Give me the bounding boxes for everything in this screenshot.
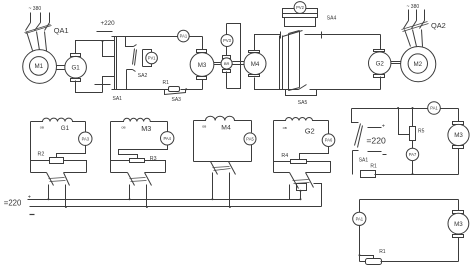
generator G1 armature circle	[65, 56, 87, 78]
motor M1 (induction motor, outer stator circle)	[23, 50, 57, 84]
svg-text:SA3: SA3	[172, 97, 182, 103]
motor M3 brush top	[197, 50, 207, 53]
svg-text:ов: ов	[121, 125, 125, 129]
junction minus bus M3 pole	[146, 206, 148, 208]
wire R5 branch from top wire	[412, 109, 414, 127]
wire diagram b left edge upper	[352, 109, 359, 123]
wire PV1 branch vertical	[143, 50, 152, 67]
svg-text:R1: R1	[163, 80, 170, 86]
wire top main DC wire to PA1 and M3	[112, 36, 203, 38]
junction plus bus G1 pole	[47, 198, 49, 200]
wire BR bottom to loop bottom	[226, 72, 228, 89]
switch SA4 right post	[321, 32, 323, 39]
junction plus bus M3 pole	[129, 198, 131, 200]
wire M3 bottom to bottom wire (diagram c)	[458, 238, 460, 262]
wire M4 minus brush down to SA5 wire	[255, 78, 299, 90]
svg-text:G1: G1	[71, 64, 80, 71]
ammeter PA5	[244, 133, 256, 145]
wire G2 minus brush down to SA5 wire	[380, 77, 382, 90]
wire PV2 across load resistor	[283, 9, 318, 14]
field winding OB G1 (inductor)	[31, 118, 86, 121]
wire box G1 right edge to PA3	[85, 122, 87, 133]
node supply minus bar (diagram b)	[368, 151, 382, 153]
svg-text:PV1: PV1	[148, 56, 156, 61]
wire R3 right terminal down	[145, 161, 166, 173]
junction R1 tap (diagram c)	[359, 254, 361, 256]
ammeter PA7	[406, 148, 418, 160]
switch QA2 linkage bar	[402, 22, 429, 32]
junction R1 output	[185, 88, 187, 90]
svg-text:G2: G2	[305, 126, 315, 135]
wire R5 slider tap branch	[399, 109, 410, 135]
ammeter PA1 (diagram b)	[428, 102, 441, 115]
svg-text:SA1: SA1	[113, 96, 123, 102]
wire bottom main DC wire to R1	[112, 89, 169, 91]
switch SA2 upper contact tick	[134, 45, 137, 47]
wire top wire down to M3 brush (diagram b)	[458, 109, 460, 122]
motor M3 armature circle (diagram c)	[448, 213, 469, 234]
motor M2 (induction motor, outer stator circle)	[401, 47, 436, 82]
motor M3 brush bottom (diagram c)	[453, 235, 464, 238]
switch SA4 blade	[283, 31, 303, 37]
junction plus bus M4 pole	[211, 198, 213, 200]
wire pole to plus bus	[129, 185, 131, 200]
wire SA2 lower contact down to bottom wire	[126, 70, 128, 90]
wire SA5 lower detour loop	[286, 90, 317, 96]
rheostat R1 body (diagram c)	[366, 259, 382, 265]
switch QA1 blades	[26, 23, 50, 31]
motor M3 brush top (diagram b)	[453, 122, 464, 125]
shaft coupling BR-M4	[233, 62, 245, 65]
svg-text:PA4: PA4	[163, 136, 171, 141]
wire PA4 to R3 slider tap	[119, 145, 168, 159]
svg-text:M3: M3	[454, 221, 463, 228]
switch box G1 linkage	[49, 178, 66, 182]
junction PA7 branch bottom	[412, 173, 414, 175]
svg-text:SA5: SA5	[298, 100, 308, 106]
voltmeter PV3 (tachogenerator voltmeter)	[221, 35, 233, 47]
svg-text:SA4: SA4	[327, 15, 337, 21]
svg-text:PV2: PV2	[296, 5, 304, 10]
svg-text:PA1: PA1	[180, 34, 188, 39]
shaft coupling G2-M2	[391, 62, 401, 64]
wire diagram b left edge lower	[353, 151, 359, 175]
wire left edge to R3 left terminal	[111, 160, 130, 162]
voltmeter PV2	[294, 2, 306, 14]
switch box M3 blades	[128, 173, 152, 186]
wire top wire down to G2 plus brush	[380, 35, 382, 50]
wire pole to plus bus	[212, 173, 214, 200]
svg-text:PA6: PA6	[325, 138, 333, 143]
svg-text:G2: G2	[376, 60, 385, 67]
wire box M4 left edge	[193, 121, 195, 162]
wire three-phase supply leads to QA1	[31, 13, 50, 23]
wire PA6 to R4 slider tap	[300, 147, 329, 160]
svg-text:ов: ов	[202, 124, 206, 128]
wire resistor loop down to SA4 contacts	[285, 18, 316, 27]
switch SA4 left post	[280, 32, 282, 39]
wire pole to minus bus	[65, 185, 67, 207]
wire branch from G1 plus junction down to bus	[103, 41, 115, 57]
svg-text:M4: M4	[221, 125, 231, 132]
wire QA2 to M2 stator leads	[405, 30, 423, 47]
rheostat R2 body	[50, 158, 64, 164]
switch SA2 lower contact	[127, 70, 136, 72]
generator G2 armature circle	[369, 52, 391, 74]
wire right pole to minus bus	[314, 184, 322, 207]
svg-text:BR: BR	[224, 61, 230, 66]
wire PA3 to R2 slider tap	[57, 146, 86, 158]
svg-text:M3: M3	[454, 132, 463, 139]
wire minus bus	[30, 206, 322, 208]
wire M3 minus brush down to bottom wire	[202, 80, 204, 90]
shaft coupling M1-G1	[57, 66, 65, 70]
wire R1 to M3 minus brush	[181, 89, 203, 91]
svg-text:R1: R1	[379, 249, 386, 255]
wire PV3-BR measuring loop	[227, 24, 241, 89]
wire box M3 right edge to PA4	[167, 122, 169, 132]
svg-text:SA1: SA1	[359, 158, 369, 164]
svg-text:PA3: PA3	[82, 136, 90, 141]
motor M3 brush bottom	[197, 77, 207, 80]
svg-text:PA7: PA7	[409, 152, 417, 157]
generator G2 brush top	[374, 50, 385, 52]
ammeter PA1 (main circuit)	[178, 30, 190, 42]
junction minus bus G1 pole	[65, 206, 67, 208]
switch QA1 linkage bar	[25, 25, 52, 34]
wire PA1 down to bottom wire (diagram c)	[359, 226, 361, 262]
field winding OB G2 (inductor)	[274, 117, 329, 120]
wire G1 minus terminal down and right	[76, 81, 103, 93]
wire M3 bottom to bottom wire (diagram b)	[458, 149, 460, 175]
wire three-phase supply leads to QA2	[409, 10, 425, 21]
svg-text:QA1: QA1	[54, 26, 69, 35]
svg-text:~ 380: ~ 380	[29, 6, 42, 12]
wire left pole stub to plus bus	[289, 185, 291, 200]
ammeter PA6	[322, 134, 335, 147]
wire M4 plus brush up to SA4 wire	[255, 35, 281, 51]
svg-text:R2: R2	[38, 152, 45, 158]
motor M4 brush top	[249, 51, 260, 53]
generator G2 brush bottom	[374, 75, 385, 78]
generator G1 brush top	[71, 54, 81, 57]
junction plus bus end	[300, 198, 302, 200]
switch SA2 blades	[133, 49, 137, 66]
switch SA1 pole wires (double vertical)	[115, 37, 117, 90]
wire SA5 to G2 minus	[310, 89, 381, 91]
switch box M4 linkage	[213, 167, 231, 171]
switch SA5 blade	[299, 85, 307, 90]
resistor R1 body (diagram b)	[361, 171, 376, 178]
wire top wire down to M3 brush (diagram c)	[458, 200, 460, 211]
motor M3 brush bottom (diagram b)	[453, 146, 464, 149]
wire pole to plus bus	[48, 185, 50, 200]
motor M4 armature circle	[244, 53, 266, 75]
field winding OB M3 (inductor)	[111, 118, 168, 121]
svg-text:R4: R4	[281, 153, 288, 159]
svg-text:M1: M1	[34, 63, 43, 70]
junction contact block top	[300, 190, 302, 192]
svg-text:M3: M3	[198, 62, 207, 69]
svg-text:=220: =220	[4, 198, 22, 207]
tachogenerator BR brush bottom	[223, 70, 231, 73]
wire box M4 bottom edge	[194, 161, 252, 163]
wire pole to minus bus	[146, 185, 148, 207]
svg-text:G1: G1	[61, 125, 70, 132]
node supply plus bar (diagram b)	[368, 127, 382, 129]
ammeter PA3	[79, 132, 92, 145]
junction on G1 plus wire	[102, 40, 104, 42]
svg-text:=220: =220	[366, 135, 386, 145]
wire switch feed line box G2	[274, 172, 331, 174]
wire PV3 to loop top and to BR	[226, 24, 228, 56]
motor M2 rotor circle and label	[408, 54, 427, 73]
node minus sign (diagram b)	[383, 154, 387, 156]
svg-text:PV3: PV3	[223, 38, 231, 43]
wire branch lower to bus and G1 minus	[103, 77, 115, 93]
wire switch feed line box G1	[31, 172, 87, 174]
svg-text:PA1: PA1	[356, 216, 364, 221]
junction tap branch top	[397, 107, 399, 109]
rheostat R3 body	[130, 159, 145, 163]
wire box G2 left edge	[273, 121, 275, 173]
wire left edge to R2 left terminal	[31, 160, 50, 162]
svg-text:ов: ов	[40, 125, 44, 129]
motor M1 rotor circle and label	[30, 57, 49, 76]
switch SA3 shorting blade across R1	[165, 90, 186, 95]
ammeter PA4	[161, 132, 174, 145]
wire top wire down to M3 plus brush	[202, 37, 204, 50]
svg-text:~ 380: ~ 380	[407, 4, 420, 10]
node minus sign of DC bus	[30, 214, 35, 216]
resistor load (across SA4) body	[283, 14, 318, 18]
svg-text:+: +	[382, 124, 385, 130]
wire box G1 left edge	[30, 122, 32, 173]
wire R2 right terminal down	[64, 161, 87, 173]
wire box M3 left edge	[110, 122, 112, 173]
switch box G1 blades	[47, 173, 70, 186]
wire R1 slider tap (diagram c)	[360, 256, 374, 259]
rheostat R4 body	[291, 160, 307, 164]
svg-text:M4: M4	[251, 61, 260, 68]
wire box M4 right edge	[251, 121, 253, 162]
wire R5 to PA7	[412, 141, 414, 149]
svg-text:+220: +220	[101, 20, 116, 27]
svg-text:PA1: PA1	[430, 106, 438, 111]
junction R5 branch top	[412, 107, 414, 109]
wire left edge to R4 left terminal	[274, 161, 291, 163]
wire bottom wire (diagram c)	[360, 261, 459, 263]
wire R4 right terminal down	[307, 162, 331, 173]
wire SA4 to G2 plus	[305, 34, 381, 36]
svg-text:QA2: QA2	[431, 21, 446, 30]
reversing contact block box G2	[297, 184, 307, 191]
svg-text:M3: M3	[141, 124, 151, 133]
switch QA2 blades	[404, 21, 425, 29]
switch box G2 linkage	[293, 180, 310, 184]
svg-text:SA2: SA2	[138, 73, 148, 79]
tachogenerator BR brush top	[223, 56, 231, 59]
motor M4 brush bottom	[249, 75, 260, 77]
wire G1 plus terminal up and right to SA1 bus	[76, 41, 115, 54]
wire box G2 right edge to PA6	[328, 121, 330, 134]
svg-text:M2: M2	[413, 61, 422, 68]
wire diagram b top wire	[352, 108, 459, 110]
node minus terminal bar	[95, 84, 111, 86]
switch box M4 blades	[211, 162, 236, 175]
shaft coupling M3-BR	[214, 63, 221, 65]
switch box M3 linkage	[130, 178, 147, 182]
wire diagram c top wire	[360, 199, 459, 201]
wire plus bus	[28, 199, 301, 201]
voltmeter PV1	[146, 52, 158, 64]
wire diagram b bottom wire	[375, 174, 459, 176]
wire QA1 to M1 stator leads	[27, 32, 47, 51]
motor M3 brush top (diagram c)	[453, 211, 464, 214]
svg-text:PA5: PA5	[246, 136, 254, 141]
wire contact block to plus bus	[300, 191, 302, 200]
wire bus to SA2 upper contact	[126, 37, 134, 47]
generator G1 brush bottom	[71, 79, 81, 82]
wire pole to minus bus	[229, 173, 231, 207]
resistor R1 body	[169, 87, 180, 92]
svg-text:ов: ов	[283, 126, 287, 130]
motor M3 armature circle	[190, 53, 214, 77]
motor M3 armature circle (diagram b)	[448, 124, 469, 145]
junction minus bus M4 pole	[229, 206, 231, 208]
field winding OB M4 (inductor)	[194, 116, 252, 120]
rheostat tall blade pair (parallelogram)	[289, 31, 300, 91]
wire switch feed line box M3	[111, 172, 166, 174]
wire double vertical riser M4 circuit	[280, 36, 283, 90]
wire left edge to PA1 (diagram c)	[359, 200, 361, 213]
switch box G2 blades	[290, 173, 314, 189]
svg-text:R5: R5	[418, 128, 425, 134]
tachogenerator BR circle	[221, 58, 232, 69]
node +220 terminal bar	[97, 31, 113, 33]
svg-text:R1: R1	[370, 163, 377, 169]
rheostat R5 body	[410, 127, 416, 141]
switch SA1 (diagram b) blades	[355, 124, 363, 148]
wire PA7 to bottom wire	[412, 161, 414, 175]
ammeter PA1 (diagram c)	[353, 212, 366, 225]
